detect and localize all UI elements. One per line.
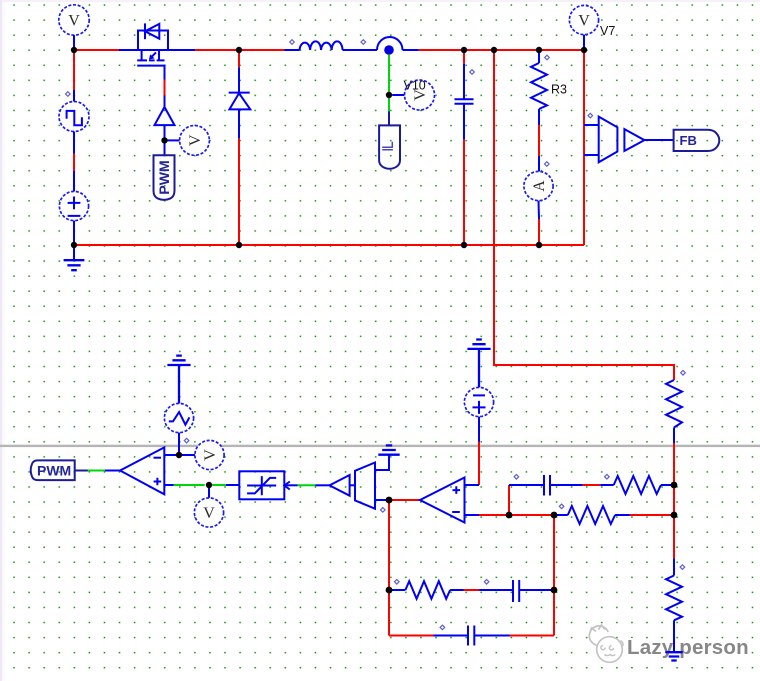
wire: compensation top row [509,484,544,486]
wire: bottom rail (red) [74,244,584,246]
wire: reference down to plus input [478,417,480,442]
svg-text:V10: V10 [404,79,426,93]
carrier source VS3 (triangle wave) [164,403,193,432]
comparator U1 [120,447,164,494]
svg-text:V7: V7 [600,24,615,38]
ammeter A1 [524,171,553,200]
node dots: control stage [176,452,678,594]
svg-text:V: V [68,13,80,30]
wire: stubs into voltage sensor S1 [584,125,599,155]
wire: between sources [73,132,75,154]
voltage sensor S2 (trapezoid) [355,463,375,509]
wire: node down to feedback row (red) [388,500,390,636]
svg-text:V: V [578,13,590,30]
square-wave voltage source VSQ [59,102,89,132]
wire: R3 to ammeter (red) [538,125,540,156]
resistor R7 (lower right, to ground) [666,558,682,652]
wire: source to ground rail [73,221,75,261]
voltage probe (carrier) [195,440,224,469]
voltage probe (control voltage) [194,498,223,527]
bottom row: capacitor C4 [389,626,554,646]
watermark logo [589,625,623,662]
horizontal divider line [0,445,760,447]
wire: stub to probe V10 [392,94,404,96]
resistor R3 [531,50,567,125]
wire: top rail left (red) [74,49,119,51]
capacitor C2 [544,475,614,496]
wire: buffer to FB flag [644,139,673,141]
wire: S2 top stub to ground [375,455,389,470]
capacitor C1 [455,50,474,245]
buffer U6 [624,129,644,151]
node: inductor output (blue dot) [384,45,394,55]
wire: right vertical (red) [583,50,585,245]
node dots: power stage [71,47,587,248]
wire: buffer to pwm flag [164,125,166,155]
ground G3 (inverted, above S2) [378,445,399,454]
wire: output node down (green) [388,55,390,112]
svg-text:Lazy person: Lazy person [627,636,749,659]
voltage probe (gate) [180,125,210,155]
buffer U2 [330,475,350,496]
resistor R6 (upper right, to output sense) [666,380,682,558]
wire: minus input row [164,454,195,456]
dc voltage source V2 [59,191,88,220]
mosfet Q1 [119,23,195,79]
wire: sensor S2 to buffer [350,484,355,486]
PWM flag (vertical) [154,155,175,200]
inductor L1 [285,41,378,50]
svg-text:V: V [202,449,219,461]
svg-text:V: V [187,134,204,146]
limiter LIM1 [239,471,289,499]
wire: node up to compensation row (red) [508,485,510,515]
wire: node to square source (red) [73,50,75,90]
FB flag [674,130,720,151]
svg-text:PWM: PWM [37,462,71,478]
resistor R4 (top compensation) [614,476,674,494]
wire: rail to output side (red) [419,49,584,51]
voltage sensor S1 (trapezoid) [599,117,618,163]
ground G2 (above carrier source, inverted) [167,356,190,404]
voltmeter probe V1 (top-left) [59,5,89,50]
wire: top rail mosfet to diode (red) [195,49,285,51]
svg-text:V: V [203,505,215,522]
wire: stub to probe V below [208,485,210,498]
ground G4 (inverted, above reference) [467,340,490,388]
wire: S2 bottom stub to output node [375,499,389,501]
wire: stub to gate probe [165,139,180,141]
feedback row: resistor R8 [389,581,479,599]
diode D1 [229,50,251,245]
wire: ammeter to bottom rail [538,201,541,219]
ground G1 [64,260,85,270]
wire: sensor buffer to limiter [284,484,297,486]
wire: into square source (blue) [73,90,75,102]
wire: long red vertical to control section [494,50,674,380]
wire: mid feedback column (red) [553,515,555,636]
wire: gate drive (red) [164,80,166,96]
capacitor C3 [479,580,554,602]
pin hot-spot markers (small diamonds) [66,40,686,630]
voltage probe V10 [404,79,435,111]
wire: comparator output to PWM flag [105,470,120,472]
error amplifier U3 [420,478,465,523]
wire: node to error-amp output (red) [389,499,420,501]
wire: plus input row to limiter [164,484,174,486]
svg-text:PWM: PWM [156,160,172,194]
svg-text:A: A [531,180,548,192]
svg-text:FB: FB [680,133,697,148]
wire: error-amp input stubs [465,485,480,515]
load flag (below output node) [379,125,400,168]
wire: minus row (red) [479,514,554,516]
svg-text:R3: R3 [551,83,567,97]
wire: carrier to comparator minus node [178,433,180,455]
voltmeter probe V7 [569,5,615,50]
reference source V5 [464,387,493,416]
wire: minus row resistor R5 [554,506,674,524]
wire: hop arc over output node [377,37,403,50]
PWM flag (horizontal) [31,460,75,480]
ground G5 (bottom right) [665,652,682,660]
gate buffer U5 [155,107,175,125]
